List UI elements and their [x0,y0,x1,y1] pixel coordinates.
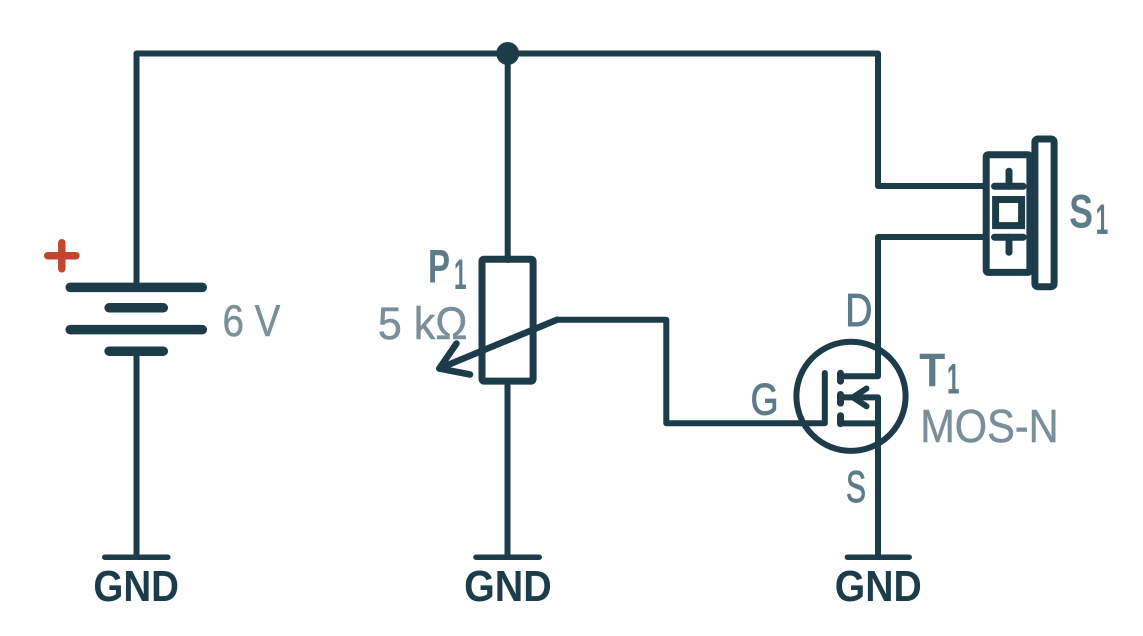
potentiometer P1 body [482,259,533,381]
potentiometer P1 wiper arrow shaft [439,320,557,369]
svg-text:T: T [919,345,945,398]
svg-text:P: P [428,240,450,293]
svg-text:GND: GND [464,563,552,611]
transistor T1 drain stub [841,373,879,379]
battery BAT 6V plate 2 (short) [109,303,163,313]
svg-text:S: S [1069,185,1093,238]
potentiometer P1 wiper arrowhead [439,344,470,375]
svg-text:1: 1 [454,251,467,299]
svg-text:GND: GND [93,563,179,611]
switch S1 movable contact square [996,200,1022,226]
wire from P1 wiper to T1 gate [557,320,823,424]
battery BAT 6V plate 3 (long) [70,325,202,335]
battery BAT 6V plate 4 (short, -) [109,346,163,356]
svg-text:5 kΩ: 5 kΩ [378,298,468,349]
svg-text:D: D [845,284,872,336]
wire from battery + up and right to node A [137,54,508,285]
wire from T1 source down to GND [875,423,881,555]
svg-text:1: 1 [1096,196,1109,244]
switch S1 upper contact stub [1006,171,1013,186]
battery BAT 6V plate 1 (long, +) [70,283,202,293]
ground symbol bar (battery) [105,554,168,560]
transistor T1 channel segment top [837,373,844,381]
transistor T1 body stub and source connection [841,397,879,423]
switch S1 lower contact stub [1006,237,1013,252]
wire from P1 bottom down to GND [505,384,511,555]
transistor T1 channel segment middle [837,395,844,404]
switch S1 upper contact bar [995,183,1024,190]
transistor T1 gate bar [822,373,828,423]
svg-text:S: S [846,463,866,512]
transistor T1 body arrow [853,389,867,407]
svg-text:1: 1 [947,356,960,404]
battery plus sign [48,243,76,269]
transistor T1 channel segment bottom [837,416,844,424]
svg-text:GND: GND [835,563,922,611]
ground symbol bar (potentiometer) [476,554,539,560]
switch S1 lower contact bar [995,234,1024,241]
switch S1 actuator rectangle [1035,139,1054,287]
wire from node A right and down to switch S1 upper contact [508,54,984,187]
junction node A [496,42,519,65]
svg-text:G: G [751,376,779,425]
wire from switch S1 lower contact left and down to T1 drain [878,237,984,376]
wire from node A down to potentiometer P1 top [505,54,511,261]
transistor T1 body circle [796,342,905,451]
switch S1 body rectangle [986,155,1030,273]
ground symbol bar (transistor source) [847,554,909,560]
svg-text:6 V: 6 V [223,297,281,346]
svg-text:MOS-N: MOS-N [920,400,1058,452]
wire from battery - down to GND [134,352,140,555]
